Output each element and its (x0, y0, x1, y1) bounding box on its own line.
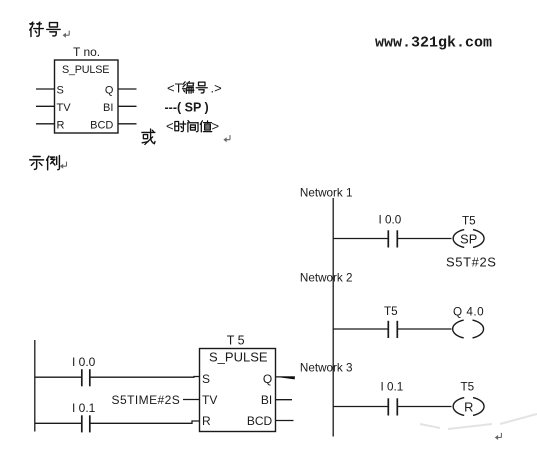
wire stub BCD output (118, 123, 137, 125)
contact I0.0 (rung1) (388, 230, 397, 247)
wire rung3 right (398, 406, 452, 408)
wire stub Q output U2 (276, 377, 295, 379)
box S_PULSE U2 (200, 349, 276, 432)
svg-text:TV: TV (202, 393, 217, 407)
label 或 (or) (142, 129, 155, 144)
contact I0.1 (rung3) (388, 398, 397, 415)
svg-text:T5: T5 (461, 381, 475, 394)
power rail (left bus) (332, 198, 334, 437)
svg-text:BI: BI (261, 393, 272, 407)
svg-text:>: > (212, 119, 220, 134)
svg-text:Network 3: Network 3 (300, 362, 353, 375)
svg-text:BCD: BCD (247, 414, 273, 428)
wire stub S input (36, 88, 55, 90)
svg-text:S: S (57, 85, 64, 97)
svg-text:---( SP ): ---( SP ) (165, 101, 209, 115)
svg-text:I 0.0: I 0.0 (379, 214, 402, 227)
svg-text:Q: Q (105, 85, 114, 97)
svg-text:T5: T5 (384, 305, 398, 318)
label 示例 (Example) (30, 157, 44, 170)
wire stub BI output (118, 105, 137, 107)
coil (R) T5 (453, 398, 484, 416)
wire S5TIME#2S to TV pin (183, 399, 200, 401)
wire stub BI output U2 (276, 399, 293, 401)
svg-text:Network 2: Network 2 (300, 272, 353, 285)
svg-text:BI: BI (103, 102, 113, 114)
wire stub Q output (118, 88, 137, 90)
wire rungA left (35, 376, 82, 378)
wire rung2 left (333, 328, 388, 330)
power rail (example) (34, 340, 36, 432)
paragraph mark after 示例 (60, 162, 67, 169)
svg-text:R: R (202, 414, 211, 428)
svg-text:T5: T5 (462, 215, 476, 228)
svg-text:I 0.1: I 0.1 (381, 381, 404, 394)
contact I0.1 (rungB) (82, 415, 90, 432)
paragraph mark bottom right (495, 433, 502, 440)
svg-text:R: R (464, 399, 473, 414)
svg-text:I 0.1: I 0.1 (72, 401, 96, 415)
svg-text:S: S (202, 372, 210, 386)
paragraph mark below 时间值 (223, 135, 230, 142)
svg-text:T no.: T no. (73, 45, 100, 59)
wire rung2 right (398, 328, 452, 330)
svg-text:R: R (57, 120, 65, 132)
svg-text:<: < (166, 119, 174, 134)
wire stub BCD output U2 (276, 420, 294, 422)
svg-text:T 5: T 5 (227, 334, 245, 348)
svg-text:www.321gk.com: www.321gk.com (375, 34, 492, 51)
wire rung3 left (333, 406, 388, 408)
svg-text:BCD: BCD (90, 120, 113, 132)
wire rung1 left (333, 238, 388, 240)
svg-text:S_PULSE: S_PULSE (209, 350, 268, 365)
svg-text:S_PULSE: S_PULSE (62, 64, 109, 76)
faint streak artifact (420, 414, 537, 429)
box S_PULSE U1 (55, 60, 119, 133)
wire rungB right to R pin (90, 421, 199, 423)
wire stub R input (36, 123, 55, 125)
svg-text:S5T#2S: S5T#2S (446, 255, 497, 270)
svg-text:Q: Q (263, 372, 272, 386)
svg-text:SP: SP (460, 231, 477, 246)
paragraph mark after 符号 (63, 31, 70, 38)
wire rung1 right (398, 238, 452, 240)
label 符号 (Symbol) (30, 22, 44, 36)
svg-text:<T: <T (167, 81, 183, 96)
wire rungB left (35, 422, 82, 424)
svg-text:Network 1: Network 1 (300, 187, 353, 200)
wire stub TV input (36, 105, 55, 107)
coil (SP) T5 (453, 230, 484, 248)
contact T5 (rung2) (388, 321, 397, 338)
svg-text:S5TIME#2S: S5TIME#2S (112, 393, 181, 407)
svg-text:I 0.0: I 0.0 (72, 355, 96, 369)
coil Q4.0 (453, 320, 484, 338)
svg-text:Q 4.0: Q 4.0 (453, 306, 484, 319)
svg-text:.>: .> (211, 81, 222, 96)
contact I0.0 (rungA) (82, 369, 90, 386)
svg-text:TV: TV (57, 102, 72, 114)
wire rungA right to S pin (90, 376, 199, 379)
